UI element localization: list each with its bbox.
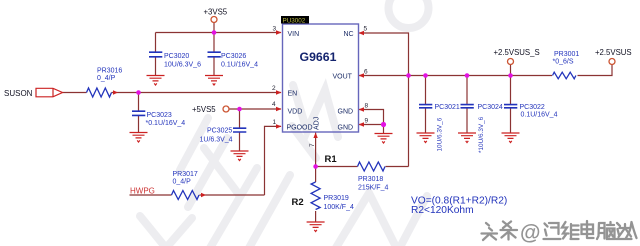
svg-text:PGOOD: PGOOD [287,125,313,132]
svg-text:SUSON: SUSON [4,89,33,98]
svg-text:GND: GND [338,125,354,132]
svg-text:PC3020: PC3020 [164,53,189,60]
svg-text:+3VS5: +3VS5 [204,8,228,17]
svg-text:6: 6 [364,69,368,76]
svg-text:EN: EN [288,91,298,98]
svg-text:PC3026: PC3026 [221,53,246,60]
svg-text:10U/6.3V_6: 10U/6.3V_6 [437,117,444,151]
svg-text:+5VS5: +5VS5 [192,105,216,114]
svg-text:3: 3 [273,26,277,33]
svg-text:PU3002: PU3002 [283,17,306,24]
svg-text:5: 5 [364,26,368,33]
svg-text:0_4/P: 0_4/P [173,179,192,186]
svg-text:0_4/P: 0_4/P [97,75,116,82]
svg-text:NC: NC [344,31,354,38]
svg-text:@: @ [520,222,540,245]
svg-text:GND: GND [338,109,354,116]
svg-text:ADJ: ADJ [314,117,321,130]
svg-text:R2: R2 [292,197,304,208]
svg-text:1U/6.3V_4: 1U/6.3V_4 [200,136,233,143]
svg-text:+2.5VSUS: +2.5VSUS [595,48,632,57]
svg-text:9: 9 [365,117,369,124]
svg-text:PR3016: PR3016 [97,67,122,74]
svg-text:PC3024: PC3024 [478,104,503,111]
svg-text:0.1U/16V_4: 0.1U/16V_4 [221,61,258,68]
svg-text:R1: R1 [325,154,338,165]
svg-text:2: 2 [272,85,276,92]
svg-text:0.1U/16V_4: 0.1U/16V_4 [521,112,558,119]
svg-text:VOUT: VOUT [333,74,353,81]
svg-text:*10U/6.3V_6: *10U/6.3V_6 [478,116,485,153]
svg-text:PC3025: PC3025 [207,128,232,135]
svg-text:PC3022: PC3022 [520,104,545,111]
svg-text:PR3018: PR3018 [358,176,383,183]
svg-text:215K/F_4: 215K/F_4 [358,184,388,191]
svg-text:7: 7 [309,143,316,147]
svg-text:PC3023: PC3023 [147,112,172,119]
svg-text:PR3001: PR3001 [554,51,579,58]
svg-text:PR3017: PR3017 [173,171,198,178]
svg-text:G9661: G9661 [300,50,337,64]
svg-text:R2<120Kohm: R2<120Kohm [411,205,474,216]
svg-text:100K/F_4: 100K/F_4 [324,204,354,211]
svg-text:HWPG: HWPG [130,186,155,195]
svg-text:1: 1 [273,119,277,126]
svg-text:PC3021: PC3021 [435,104,460,111]
svg-text:PR3019: PR3019 [324,195,349,202]
svg-text:4: 4 [272,101,276,108]
svg-text:VIN: VIN [288,31,300,38]
svg-text:8: 8 [365,102,369,109]
svg-text:10U/6.3V_6: 10U/6.3V_6 [164,61,201,68]
svg-text:*0_6/S: *0_6/S [553,59,574,66]
svg-text:*0.1U/16V_4: *0.1U/16V_4 [146,120,186,127]
svg-text:+2.5VSUS_S: +2.5VSUS_S [494,48,540,57]
svg-text:VDD: VDD [288,109,303,116]
